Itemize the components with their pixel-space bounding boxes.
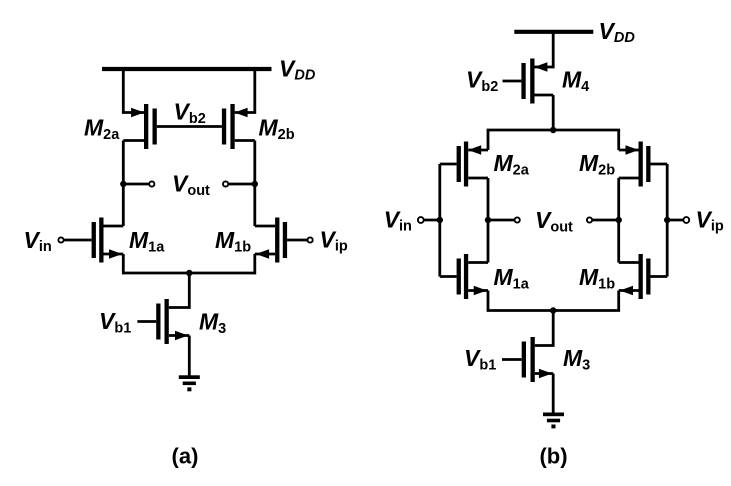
wire M1a source to tail	[122, 254, 125, 274]
node Vip terminal (b)	[667, 219, 683, 222]
transistor M1a-b (NMOS)	[440, 254, 488, 299]
wire right drain line (b)	[617, 178, 620, 263]
wire Vb1 gate stub	[137, 320, 156, 323]
ground (a)	[179, 375, 200, 391]
wire bottom rail (b)	[487, 309, 620, 312]
wire right branch M2b drain down	[253, 141, 256, 227]
svg-text:(b): (b)	[539, 444, 567, 469]
wire M1b source down (b)	[617, 291, 620, 311]
wire M4 drain down	[552, 95, 555, 130]
wire VDD to M2a source	[123, 71, 144, 113]
node Vin terminal	[64, 239, 92, 242]
node Vin terminal (b)	[424, 219, 440, 222]
wire left gate line (b)	[438, 164, 441, 277]
transistor M2b (PMOS)	[222, 104, 255, 149]
transistor M3 (NMOS)	[156, 299, 189, 344]
wire rail to M2a source	[487, 130, 490, 150]
wire M3 source to ground (b)	[552, 374, 555, 414]
wire left drain line (b)	[487, 178, 490, 263]
wire Vb2 gate stub (b)	[503, 80, 522, 83]
VDD rail (a)	[102, 67, 272, 71]
node Vout right stub (b)	[592, 219, 618, 222]
VDD rail (b)	[514, 30, 593, 34]
wire rail to M2b source	[617, 130, 620, 150]
wire tail to M3 drain (b)	[535, 311, 553, 346]
transistor M4 (PMOS)	[521, 59, 553, 104]
transistor M2a (PMOS)	[123, 104, 157, 149]
wire M3 source to ground	[188, 336, 191, 377]
node Vout left stub	[123, 183, 148, 186]
wire Vb1 gate stub (b)	[502, 358, 522, 361]
transistor M2b-b (PMOS)	[619, 142, 668, 187]
node Vout right stub	[229, 183, 255, 186]
wire M1a source down (b)	[487, 291, 490, 311]
transistor M1a (NMOS)	[92, 218, 124, 263]
wire right gate line (b)	[666, 164, 669, 277]
node Vip terminal	[287, 239, 307, 242]
ground (b)	[543, 413, 564, 429]
wire M1b source to tail	[253, 254, 256, 274]
transistor M1b (NMOS)	[255, 218, 287, 263]
wire left branch M2a drain down	[122, 141, 125, 227]
transistor M3-b (NMOS)	[522, 337, 554, 382]
wire tail to M3 drain	[169, 273, 190, 308]
svg-text:(a): (a)	[172, 444, 199, 469]
wire VDD to M4 source	[535, 33, 554, 67]
transistor M2a-b (PMOS)	[440, 142, 488, 187]
wire Vb2 gates M2a-M2b	[157, 125, 222, 128]
wire top rail (b)	[487, 129, 620, 132]
node Vout left stub (b)	[488, 219, 514, 222]
transistor M1b-b (NMOS)	[619, 254, 668, 299]
wire tail rail	[123, 272, 255, 275]
wire VDD to M2b source	[235, 71, 255, 113]
